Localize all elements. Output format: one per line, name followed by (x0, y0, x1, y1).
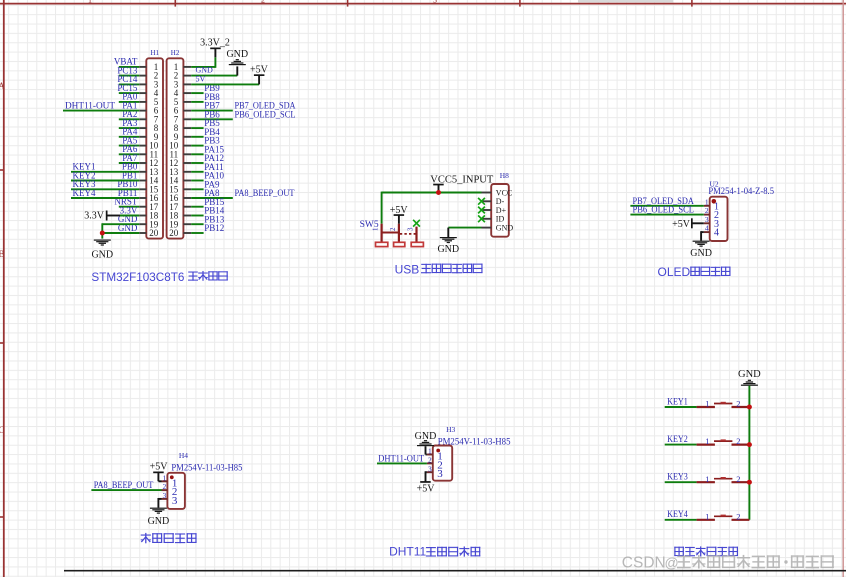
svg-text:PM254V-11-03-H85: PM254V-11-03-H85 (438, 436, 511, 446)
pin H4-3 (162, 491, 178, 507)
wire H2-1 to 3.3V_2 (191, 57, 215, 68)
no-connect X on H8 ID (478, 215, 485, 222)
net label PB5 (H2 pin 8) (204, 118, 220, 128)
svg-text:USB: USB (395, 262, 420, 276)
ground GND (below H1) (91, 240, 113, 261)
pin H1-9 (139, 132, 159, 142)
pin H2-2 (174, 71, 192, 81)
wire KEY2 to H1-14 (71, 180, 139, 182)
net label GND (H1 pin 19) (118, 214, 138, 224)
svg-text:PB12: PB12 (204, 223, 224, 233)
net label PA0 (H1 pin 5) (122, 92, 138, 102)
pin U2-2 (704, 206, 719, 221)
wire H1-20 to ground (102, 223, 139, 238)
pin H1-16 (139, 193, 159, 203)
wire (191, 162, 203, 164)
svg-text:3: 3 (705, 215, 709, 224)
svg-text:1: 1 (705, 197, 709, 206)
svg-text:GND: GND (226, 49, 248, 60)
connector U2 (710, 197, 728, 241)
pin H1-13 (139, 167, 159, 177)
net label PB6_OLED_SCL (OLED) (633, 206, 695, 216)
wire (191, 232, 203, 234)
push button KEY3 (697, 477, 750, 482)
svg-text:ID: ID (496, 215, 505, 224)
pin H2-7 (174, 114, 192, 124)
svg-text:2: 2 (736, 511, 740, 521)
pin H1-8 (139, 123, 159, 133)
pin H1-4 (139, 88, 159, 98)
net label KEY2 (73, 171, 96, 181)
pin H1-1 (139, 62, 158, 72)
watermark CSDN (622, 555, 834, 572)
pin H1-20 (139, 228, 159, 238)
wire (119, 66, 139, 68)
net label KEY3 (73, 180, 96, 190)
net label PB12 (H2 pin 20) (204, 223, 224, 233)
svg-text:VCC: VCC (496, 188, 512, 197)
wire (191, 215, 203, 217)
wire H1-18 (120, 215, 139, 217)
net label KEY3 (keys module) (667, 473, 688, 483)
label STM32F103C8T6 title (91, 270, 227, 284)
svg-text:3: 3 (163, 491, 167, 500)
junction KEY3 (747, 480, 752, 485)
designator H1 (151, 49, 160, 57)
pin H2-17 (169, 202, 191, 212)
designator H3 (446, 425, 455, 434)
net label PB7_OLED_SDA (235, 102, 296, 112)
connector H3 (433, 446, 452, 481)
svg-text:2: 2 (163, 482, 167, 491)
wire PA8 extended (191, 197, 233, 199)
svg-text:2: 2 (261, 0, 265, 5)
wire (191, 101, 203, 103)
svg-text:1: 1 (428, 447, 432, 456)
net label PA8_BEEP_OUT (235, 189, 295, 199)
pin H8-1 VCC (482, 188, 513, 197)
power +5V (H4 pin1) (150, 462, 169, 482)
net label PA5 (H1 pin 10) (122, 135, 138, 145)
net label PA15 (H2 pin 11) (204, 144, 224, 154)
pin H1-12 (139, 158, 158, 168)
no-connect X on SW5 pin3 (413, 220, 420, 227)
svg-text:STM32F103C8T6: STM32F103C8T6 (91, 270, 184, 284)
net label KEY1 (73, 163, 96, 173)
junction (VCC5_INPUT) (436, 190, 441, 195)
wire VCC bus (H8-1 to SW5) (382, 192, 482, 224)
net label PB13 (H2 pin 19) (204, 214, 225, 224)
svg-text:1: 1 (163, 473, 167, 482)
pin H1-2 (139, 71, 158, 81)
svg-text:A: A (0, 81, 5, 91)
svg-text:4: 4 (705, 224, 709, 233)
power port VCC5_INPUT (430, 174, 493, 192)
net label PA4 (H1 pin 9) (122, 127, 138, 137)
push button KEY2 (697, 439, 750, 444)
connector H2 (167, 58, 184, 238)
pin H2-19 (169, 219, 191, 229)
pin H1-17 (139, 202, 159, 212)
push button KEY1 (697, 402, 750, 407)
connector H1 (146, 58, 163, 238)
pin H2-8 (174, 123, 192, 133)
pin number 2 (KEY4) (736, 511, 740, 521)
wire H8-5 to ground (448, 227, 481, 229)
pin number 3 (SW5) (407, 227, 415, 231)
wire (119, 92, 139, 94)
pin H2-16 (169, 193, 191, 203)
connector H8 (491, 184, 509, 237)
wire DHT11-OUT (H3-2) (377, 462, 427, 464)
pin H2-9 (174, 132, 192, 142)
svg-text:DHT11: DHT11 (389, 544, 426, 558)
svg-text:3.3V: 3.3V (84, 210, 105, 221)
pin number 1 (KEY3) (705, 474, 709, 484)
pin H3-1 (427, 447, 443, 463)
svg-text:KEY3: KEY3 (667, 473, 688, 483)
net label PB6_OLED_SCL (235, 110, 296, 120)
wire (191, 180, 203, 182)
svg-text:20: 20 (149, 228, 159, 238)
junction KEY1 (747, 405, 752, 410)
svg-text:2: 2 (705, 206, 709, 215)
svg-text:3: 3 (433, 0, 437, 5)
svg-text:PA8_BEEP_OUT: PA8_BEEP_OUT (94, 481, 154, 491)
wire H4-3 to ground (158, 498, 161, 508)
svg-text:1: 1 (372, 227, 380, 231)
svg-text:D-: D- (496, 197, 505, 206)
svg-text:DHT11-OUT: DHT11-OUT (65, 101, 115, 111)
pin U2-3 (704, 215, 719, 230)
wire H2-2 to GND (191, 75, 237, 77)
pin H3-3 (427, 464, 443, 480)
net label KEY4 (keys module) (667, 510, 688, 520)
svg-text:KEY4: KEY4 (667, 510, 688, 520)
svg-text:PA8_BEEP_OUT: PA8_BEEP_OUT (235, 189, 295, 199)
wire key bus vertical (748, 386, 750, 520)
pin H1-15 (139, 184, 159, 194)
net label PB7_OLED_SDA (OLED) (633, 197, 695, 207)
wire (191, 145, 203, 147)
pin H3-2 (427, 456, 443, 472)
wire (191, 223, 203, 225)
no-connect X on H8 D- (478, 198, 485, 205)
wire (119, 118, 139, 120)
svg-text:+5V: +5V (250, 65, 269, 76)
wire KEY4 (keys module) (665, 519, 697, 521)
net label PC15 (H1 pin 4) (117, 83, 138, 93)
wire (119, 136, 139, 138)
wire (119, 101, 139, 103)
svg-text:+5V: +5V (150, 462, 169, 473)
pin H1-3 (139, 80, 159, 90)
wire U2-4 to ground (701, 231, 704, 240)
net label PA1 (H1 pin 6) (122, 100, 137, 110)
pin H2-3 (174, 80, 192, 90)
wire (191, 127, 203, 129)
label USB module title (395, 262, 483, 276)
pin H4-1 (162, 473, 178, 489)
svg-text:PB6_OLED_SCL: PB6_OLED_SCL (633, 206, 695, 216)
value PM254V-11-03-H85 (H4) (171, 463, 242, 473)
pin H2-14 (169, 176, 191, 186)
pin H1-7 (139, 114, 159, 124)
pin H2-13 (169, 167, 191, 177)
power +5V (near H2) (250, 65, 269, 85)
pin H2-15 (169, 184, 191, 194)
svg-text:H4: H4 (179, 451, 188, 460)
wire KEY3 to H1-15 (71, 188, 139, 190)
pin number 1 (KEY2) (705, 436, 709, 446)
net label PB11 (H1 pin 16) (118, 188, 138, 198)
ground GND (above DHT11) (415, 431, 437, 455)
svg-text:3: 3 (172, 495, 178, 507)
svg-text:DHT11-OUT: DHT11-OUT (378, 454, 424, 464)
net label NRST (H1 pin 17) (114, 197, 138, 207)
wire (191, 92, 203, 94)
svg-text:H8: H8 (500, 171, 509, 180)
svg-text:5V: 5V (196, 75, 206, 84)
ground GND (top of sheet) (226, 49, 248, 76)
svg-text:+5V: +5V (417, 484, 436, 495)
pin H4-2 (162, 482, 178, 498)
svg-text:KEY4: KEY4 (73, 189, 96, 199)
junction KEY2 (747, 442, 752, 447)
pin number 2 (KEY1) (736, 399, 740, 409)
net label KEY4 (73, 189, 96, 199)
power +5V (H3 pin3, below) (417, 471, 436, 494)
svg-text:1: 1 (88, 0, 92, 5)
power port 3.3V_2 (200, 37, 230, 57)
wire (191, 153, 203, 155)
pin H2-12 (169, 158, 191, 168)
svg-text:2: 2 (736, 474, 740, 484)
svg-text:GND: GND (738, 369, 761, 380)
pin H1-19 (139, 219, 159, 229)
push button KEY4 (697, 515, 750, 520)
svg-text:C: C (0, 425, 5, 435)
svg-text:D+: D+ (496, 206, 507, 215)
svg-text:1: 1 (705, 511, 709, 521)
svg-text:2: 2 (428, 456, 432, 465)
pin U2-1 (704, 197, 719, 212)
svg-text:2: 2 (389, 227, 397, 231)
net label PB14 (H2 pin 18) (204, 206, 225, 216)
net label PA9 (H2 pin 15) (204, 179, 220, 189)
svg-text:1: 1 (705, 399, 709, 409)
power +5V (U2 pin3) (672, 218, 704, 230)
wire PB6 extended (191, 118, 233, 120)
pin H2-10 (169, 141, 191, 151)
net label PB3 (H2 pin 10) (204, 136, 220, 146)
designator SW5 (360, 220, 379, 230)
net label PB7 (H2 pin 6) (204, 101, 220, 111)
svg-text:GND: GND (437, 244, 459, 255)
net label KEY1 (keys module) (667, 397, 688, 407)
ground GND (USB module) (437, 228, 459, 255)
wire DHT11-OUT to H1-6 (63, 110, 139, 112)
pin H8-4 ID (482, 215, 505, 224)
svg-text:2: 2 (736, 436, 740, 446)
wire (191, 206, 203, 208)
junction (H1 ground) (100, 231, 105, 236)
pin H2-6 (174, 106, 192, 116)
wire KEY4 to H1-16 (71, 197, 139, 199)
svg-text:GND: GND (496, 224, 514, 233)
wire (119, 145, 139, 147)
net label PB1 (H1 pin 14) (122, 170, 138, 180)
svg-text:4: 4 (714, 228, 719, 239)
wire (119, 75, 139, 77)
svg-text:1: 1 (705, 436, 709, 446)
svg-text:GND: GND (148, 516, 170, 527)
value PM254V-11-03-H85 (H3) (438, 436, 511, 446)
net label PA7 (H1 pin 12) (122, 153, 138, 163)
net label PA6 (H1 pin 11) (122, 144, 138, 154)
power +5V (SW5 pin2) (390, 205, 409, 224)
net label PB10 (H1 pin 15) (117, 179, 138, 189)
wire PB7_OLED_SDA (U2-1) (630, 205, 703, 207)
pin H2-11 (170, 149, 192, 159)
svg-text:PM254V-11-03-H85: PM254V-11-03-H85 (171, 463, 242, 473)
pin H2-18 (169, 211, 191, 221)
net label GND (H2 pin2 wire) (196, 66, 214, 75)
svg-text:+5V: +5V (672, 219, 691, 230)
wire H2-3 to +5V (191, 83, 259, 85)
designator H2 (171, 49, 180, 57)
wire H1-19 to ground (102, 223, 139, 225)
svg-text:B: B (0, 249, 5, 259)
pin H8-3 D+ (482, 206, 507, 215)
pin number 1 (KEY1) (705, 399, 709, 409)
svg-text:H2: H2 (171, 49, 180, 57)
connector H4 (167, 473, 185, 509)
svg-text:H3: H3 (446, 425, 455, 434)
svg-text:GND: GND (690, 248, 712, 259)
net label PA11 (H2 pin 13) (204, 162, 223, 172)
net label PA8 (H2 pin 16) (204, 188, 220, 198)
svg-text:3: 3 (428, 464, 432, 473)
pin H2-4 (174, 88, 192, 98)
wire KEY1 (keys module) (665, 406, 697, 408)
wire KEY3 (keys module) (665, 481, 697, 483)
label DHT11 module title (389, 544, 480, 558)
designator U2 (710, 180, 719, 189)
svg-text:2: 2 (736, 399, 740, 409)
net label PB15 (H2 pin 17) (204, 197, 225, 207)
wire PA8_BEEP_OUT (H4-2) (91, 489, 161, 491)
designator H8 (500, 171, 509, 180)
pin H1-6 (139, 106, 159, 116)
window edge bottom (64, 570, 846, 572)
svg-text:H1: H1 (151, 49, 160, 57)
svg-text:OLED: OLED (658, 265, 691, 279)
wire KEY1 to H1-13 (71, 171, 139, 173)
net label PC14 (H1 pin 3) (117, 74, 138, 84)
net label PB4 (H2 pin 9) (204, 127, 220, 137)
net label PB6 (H2 pin 7) (204, 109, 220, 119)
svg-text:KEY1: KEY1 (667, 397, 688, 407)
pin number 1 (KEY4) (705, 511, 709, 521)
pin H2-1 (174, 62, 192, 72)
net label KEY2 (keys module) (667, 435, 688, 445)
svg-text:1: 1 (705, 474, 709, 484)
net label VBAT (H1 pin 1) (114, 57, 138, 67)
no-connect X on H8 D+ (478, 207, 485, 214)
net label PA3 (H1 pin 8) (122, 118, 138, 128)
svg-text:KEY2: KEY2 (667, 435, 688, 445)
designator H4 (179, 451, 188, 460)
pin H1-18 (139, 211, 159, 221)
wire (191, 171, 203, 173)
pin H1-11 (139, 149, 158, 159)
pin U2-4 (704, 224, 719, 239)
pin H2-5 (174, 97, 192, 107)
pin H8-2 D- (482, 197, 505, 206)
net label PB0 (H1 pin 13) (122, 162, 138, 172)
wire KEY2 (keys module) (665, 444, 697, 446)
label buzzer module title (141, 533, 197, 544)
wire PB7 extended (191, 110, 233, 112)
label OLED module title (658, 265, 731, 279)
svg-text:3: 3 (437, 468, 443, 480)
svg-text:CSDN: CSDN (622, 555, 666, 572)
pin H2-20 (169, 228, 191, 238)
switch SW5 (376, 224, 424, 247)
net label DHT11-OUT (module) (378, 454, 424, 464)
net label GND (H1 pin 20) (118, 223, 138, 233)
wire PB6_OLED_SCL (U2-2) (630, 214, 703, 216)
pin number 2 (KEY2) (736, 436, 740, 446)
net label PA8_BEEP_OUT (buzzer) (94, 481, 154, 491)
ground GND (buzzer module) (148, 508, 170, 527)
label keys module title (674, 546, 738, 556)
net label DHT11-OUT (65, 101, 115, 111)
net label 3.3V (H1 pin 18) (120, 205, 138, 215)
wire (119, 153, 139, 155)
wire (119, 127, 139, 129)
svg-text:20: 20 (169, 228, 179, 238)
ground GND (OLED module) (690, 241, 712, 259)
svg-text:PM254-1-04-Z-8.5: PM254-1-04-Z-8.5 (708, 186, 774, 196)
pin H8-5 GND (482, 224, 514, 233)
wire (191, 136, 203, 138)
svg-text:VCC5_INPUT: VCC5_INPUT (430, 174, 493, 185)
net label PC13 (H1 pin 2) (117, 65, 138, 75)
ground GND (keys module) (738, 369, 761, 386)
net label PA10 (H2 pin 14) (204, 171, 224, 181)
pin number 2 (SW5) (389, 227, 397, 231)
svg-text:3.3V_2: 3.3V_2 (200, 37, 230, 48)
power 3.3V (H1 pin18) (84, 210, 120, 221)
svg-text:@: @ (665, 555, 679, 571)
net label PB8 (H2 pin 5) (204, 92, 220, 102)
net label PA2 (H1 pin 7) (122, 109, 137, 119)
pin H1-10 (139, 141, 159, 151)
svg-text:PB6_OLED_SCL: PB6_OLED_SCL (235, 110, 296, 120)
net label PB9 (H2 pin 4) (204, 83, 220, 93)
svg-text:GND: GND (196, 66, 214, 75)
wire (119, 83, 139, 85)
wire (119, 162, 139, 164)
wire (191, 188, 203, 190)
net label PA12 (H2 pin 12) (204, 153, 224, 163)
wire (119, 206, 139, 208)
pin number 1 (SW5) (372, 227, 380, 231)
net label 5V (H2 pin3 wire) (196, 75, 206, 84)
value PM254-1-04-Z-8.5 (708, 186, 774, 196)
